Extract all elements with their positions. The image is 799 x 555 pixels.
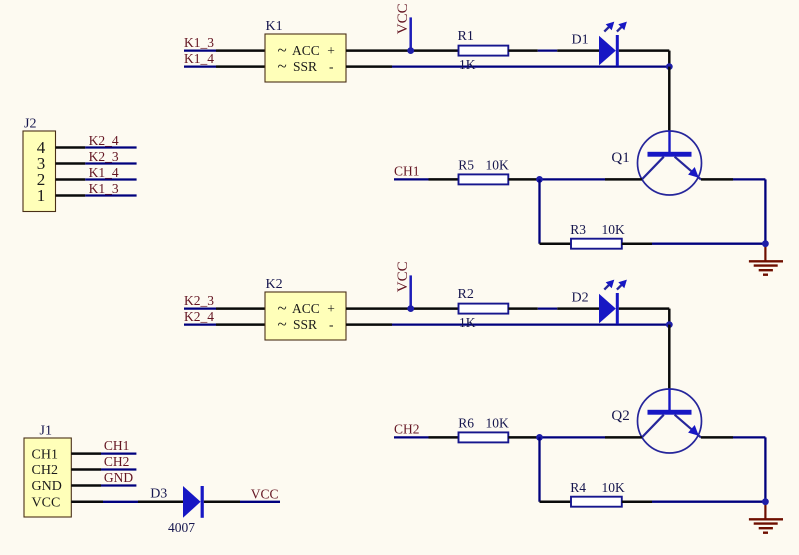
transistor Q2 bbox=[638, 389, 702, 453]
pin 1 of J2 bbox=[56, 194, 86, 197]
pin 4 of K2 bbox=[216, 323, 265, 326]
wire down to feedback resistor bbox=[538, 179, 540, 243]
pin anode of D2 bbox=[557, 307, 599, 310]
svg-text:K1_4: K1_4 bbox=[184, 51, 214, 66]
pin 2 of K2 (SSR -) bbox=[346, 323, 392, 326]
wire to base node bbox=[540, 178, 606, 180]
svg-text:K1: K1 bbox=[266, 19, 283, 34]
svg-text:VCC: VCC bbox=[395, 261, 411, 292]
pin CH2 of J1 bbox=[71, 468, 101, 471]
junction at VCC bbox=[407, 47, 414, 54]
resistor R5 bbox=[459, 174, 509, 184]
wire down right side bbox=[764, 437, 766, 501]
svg-text:VCC: VCC bbox=[395, 3, 411, 34]
pin 3 of J2 bbox=[56, 162, 86, 165]
svg-text:J2: J2 bbox=[24, 117, 36, 132]
pin of R6 bbox=[429, 436, 459, 439]
pin collector of Q2 bbox=[605, 436, 642, 439]
diode D3 bbox=[183, 486, 204, 518]
pin of R1 bbox=[508, 49, 538, 52]
svg-text:R5: R5 bbox=[458, 157, 474, 172]
pin cathode of D2 bbox=[619, 307, 670, 310]
wire CH2 bbox=[394, 436, 429, 438]
svg-text:CH1: CH1 bbox=[32, 447, 58, 462]
wire to base node bbox=[540, 436, 606, 438]
junction at ground bbox=[762, 498, 769, 505]
pin of R4 bbox=[622, 500, 652, 503]
wire K1_4 bbox=[184, 65, 216, 67]
wire to VCC bbox=[240, 501, 280, 503]
svg-text:~: ~ bbox=[278, 57, 287, 76]
pin 3 of K2 bbox=[216, 307, 265, 310]
svg-text:10K: 10K bbox=[602, 480, 626, 495]
svg-text:+: + bbox=[327, 301, 335, 316]
pin of R3 bbox=[622, 242, 652, 245]
connector J2 bbox=[23, 131, 56, 212]
svg-text:K1_3: K1_3 bbox=[184, 35, 214, 50]
resistor R1 bbox=[459, 46, 509, 56]
svg-text:-: - bbox=[329, 317, 334, 332]
pin of R5 bbox=[429, 178, 459, 181]
pin 4 of J2 bbox=[56, 146, 86, 149]
wire SSR- to LED cathode junction bbox=[392, 323, 669, 325]
svg-text:K1_4: K1_4 bbox=[89, 165, 119, 180]
pin 2 of J2 bbox=[56, 178, 86, 181]
wire K1_4 bbox=[85, 178, 136, 180]
svg-text:10K: 10K bbox=[602, 222, 626, 237]
svg-text:K1_3: K1_3 bbox=[89, 181, 119, 196]
svg-text:K2_3: K2_3 bbox=[89, 149, 119, 164]
svg-text:10K: 10K bbox=[486, 415, 510, 430]
svg-text:Q1: Q1 bbox=[611, 150, 629, 166]
wire CH2 bbox=[101, 468, 136, 470]
junction at VCC bbox=[407, 305, 414, 312]
svg-text:D3: D3 bbox=[150, 486, 167, 501]
svg-text:J1: J1 bbox=[40, 424, 52, 439]
resistor R3 bbox=[571, 239, 622, 249]
junction at R divider bbox=[536, 434, 543, 441]
pin emitter of Q1 bbox=[701, 178, 733, 181]
svg-text:SSR: SSR bbox=[293, 317, 317, 332]
relay K2 bbox=[265, 292, 346, 340]
pin collector of Q1 bbox=[605, 178, 642, 181]
pin cathode of D1 bbox=[619, 49, 670, 52]
power port VCC bbox=[395, 261, 411, 308]
svg-text:R3: R3 bbox=[570, 222, 586, 237]
pin 1 of K1 (ACC +) bbox=[346, 49, 411, 52]
wire bbox=[538, 307, 557, 309]
wire K2_4 bbox=[85, 146, 136, 148]
wire bbox=[538, 49, 557, 51]
pin CH1 of J1 bbox=[71, 452, 101, 455]
svg-text:D1: D1 bbox=[572, 33, 589, 48]
svg-text:VCC: VCC bbox=[32, 496, 61, 511]
junction at LED cathode / SSR- bbox=[666, 63, 673, 70]
wire K1_3 bbox=[85, 194, 136, 196]
svg-text:K2_3: K2_3 bbox=[184, 293, 214, 308]
pin GND of J1 bbox=[71, 484, 101, 487]
svg-text:1K: 1K bbox=[459, 315, 476, 330]
svg-text:GND: GND bbox=[104, 470, 133, 485]
svg-text:GND: GND bbox=[32, 479, 62, 494]
wire VCC to D3 bbox=[103, 501, 138, 503]
svg-text:D2: D2 bbox=[572, 291, 589, 306]
relay K1 bbox=[265, 34, 346, 82]
svg-text:4007: 4007 bbox=[168, 520, 195, 535]
svg-text:K2_4: K2_4 bbox=[184, 309, 214, 324]
pin of R5 bbox=[508, 178, 539, 181]
svg-text:10K: 10K bbox=[486, 157, 510, 172]
svg-text:~: ~ bbox=[278, 315, 287, 334]
LED D1 bbox=[599, 35, 619, 66]
wire to ground node bbox=[652, 501, 765, 503]
wire K2_3 bbox=[85, 162, 136, 164]
LED D2 bbox=[599, 293, 619, 324]
junction at ground bbox=[762, 240, 769, 247]
wire emitter to right bbox=[733, 436, 765, 438]
svg-text:CH1: CH1 bbox=[394, 163, 420, 178]
pin emitter of Q2 bbox=[701, 436, 733, 439]
svg-text:+: + bbox=[327, 43, 335, 58]
svg-text:CH2: CH2 bbox=[394, 421, 420, 436]
svg-text:CH2: CH2 bbox=[104, 454, 130, 469]
wire down to junction bbox=[668, 309, 671, 325]
connector J1 bbox=[24, 438, 71, 517]
svg-text:R4: R4 bbox=[570, 480, 586, 495]
pin cathode of D3 bbox=[204, 501, 240, 504]
pin 3 of K1 bbox=[216, 49, 265, 52]
svg-text:1K: 1K bbox=[459, 57, 476, 72]
wire K2_3 bbox=[184, 307, 216, 309]
svg-text:K2_4: K2_4 bbox=[89, 133, 119, 148]
junction at LED cathode / SSR- bbox=[666, 321, 673, 328]
wire CH1 bbox=[394, 178, 429, 180]
LED emission arrow bbox=[617, 22, 627, 32]
wire junction down to Q2 base bbox=[668, 325, 671, 389]
pin 2 of K1 (SSR -) bbox=[346, 65, 392, 68]
pin of R4 bbox=[540, 500, 572, 503]
transistor Q1 bbox=[638, 131, 702, 195]
wire emitter to right bbox=[733, 178, 765, 180]
junction at R divider bbox=[536, 176, 543, 183]
svg-text:R6: R6 bbox=[458, 415, 474, 430]
wire down right side bbox=[764, 179, 766, 243]
svg-text:ACC: ACC bbox=[292, 43, 320, 58]
ground bbox=[749, 244, 783, 275]
pin anode of D1 bbox=[557, 49, 599, 52]
svg-text:R2: R2 bbox=[458, 287, 474, 302]
pin 4 of K1 bbox=[216, 65, 265, 68]
resistor R4 bbox=[571, 497, 622, 507]
pin 1 of K2 (ACC +) bbox=[346, 307, 411, 310]
svg-text:Q2: Q2 bbox=[611, 408, 629, 424]
svg-text:CH1: CH1 bbox=[104, 438, 130, 453]
wire to ground node bbox=[652, 243, 765, 245]
resistor R2 bbox=[459, 304, 509, 314]
wire GND bbox=[101, 484, 136, 486]
svg-text:VCC: VCC bbox=[251, 486, 279, 501]
wire K1_3 bbox=[184, 49, 216, 51]
wire K2_4 bbox=[184, 323, 216, 325]
svg-text:K2: K2 bbox=[266, 277, 283, 292]
pin VCC of J1 bbox=[71, 501, 103, 504]
wire down to feedback resistor bbox=[538, 437, 540, 501]
wire to R pin bbox=[411, 307, 459, 310]
power port VCC bbox=[395, 3, 411, 50]
ground bbox=[749, 502, 783, 533]
LED emission arrow bbox=[604, 22, 614, 32]
svg-text:-: - bbox=[329, 59, 334, 74]
pin of R6 bbox=[508, 436, 539, 439]
wire to R pin bbox=[411, 49, 459, 52]
wire CH1 bbox=[101, 452, 136, 454]
pin of R3 bbox=[540, 242, 572, 245]
LED emission arrow bbox=[617, 280, 627, 290]
svg-text:CH2: CH2 bbox=[32, 463, 58, 478]
svg-text:SSR: SSR bbox=[293, 59, 317, 74]
wire junction down to Q1 base bbox=[668, 67, 671, 131]
wire SSR- to LED cathode junction bbox=[392, 65, 669, 67]
pin of R2 bbox=[508, 307, 538, 310]
pin anode of D3 bbox=[138, 501, 183, 504]
LED emission arrow bbox=[604, 280, 614, 290]
svg-text:1: 1 bbox=[37, 186, 46, 205]
svg-text:ACC: ACC bbox=[292, 301, 320, 316]
wire down to junction bbox=[668, 51, 671, 67]
svg-text:R1: R1 bbox=[458, 29, 474, 44]
resistor R6 bbox=[459, 432, 509, 442]
